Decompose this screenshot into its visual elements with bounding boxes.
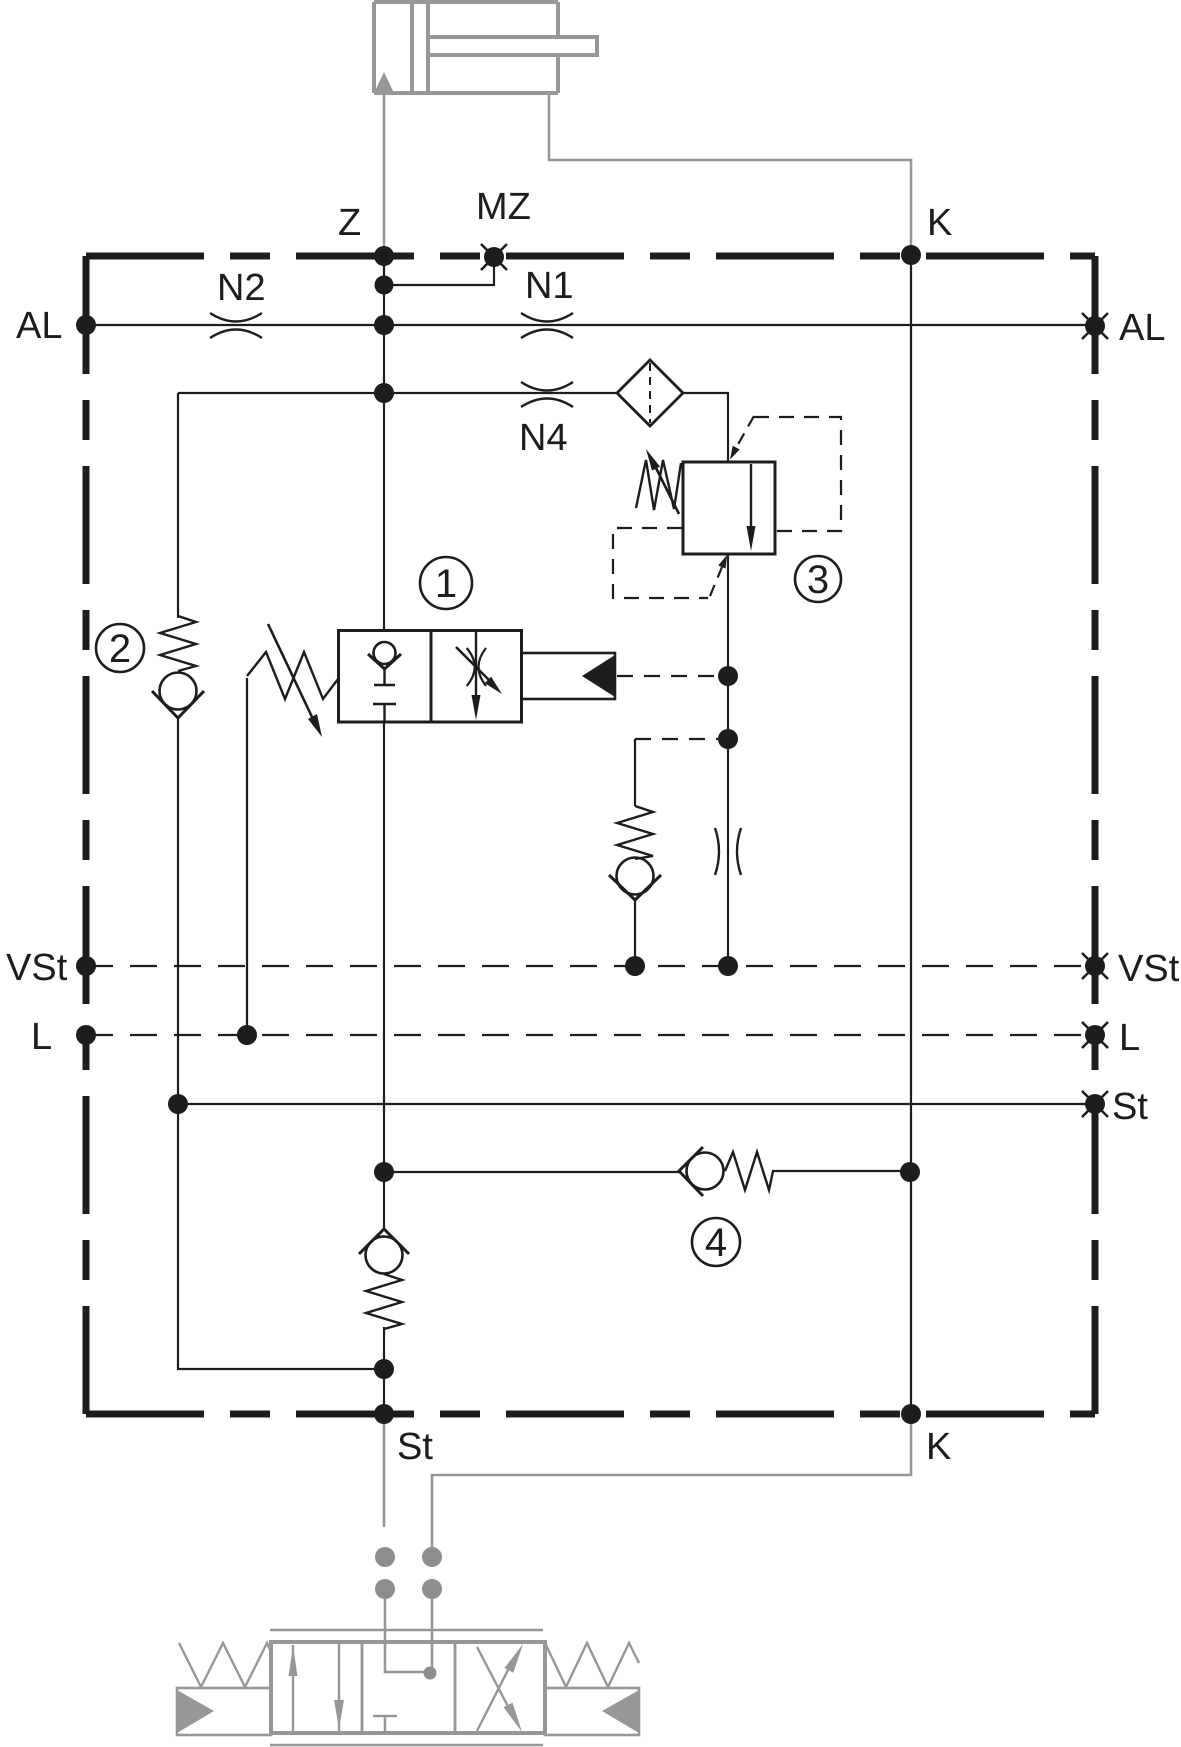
node AL right (1085, 316, 1105, 336)
wire N4 branch line (178, 392, 617, 394)
orifice N4 (521, 382, 573, 407)
node L spring junction (237, 1025, 257, 1045)
bottom check valve spring (366, 1274, 402, 1329)
check valve 2 spring (160, 616, 196, 671)
valve 1 adjust arrow (268, 624, 312, 717)
valve 1 solenoid (522, 653, 616, 699)
mid check valve spring (617, 806, 653, 859)
wire AL line (86, 324, 1095, 326)
node VSt right (1085, 956, 1105, 976)
node K bottom (901, 1404, 921, 1424)
valve 1 body (339, 631, 522, 723)
label AL left (16, 312, 61, 338)
wire L line (86, 1034, 1095, 1036)
node L right (1085, 1025, 1105, 1045)
node MZ (484, 247, 504, 267)
node bypass junction (374, 1162, 394, 1182)
wire K gray to valve (432, 1418, 911, 1667)
node VSt left (76, 956, 96, 976)
wire MZ tap (384, 260, 494, 285)
manifold boundary top (86, 253, 1095, 260)
wire bottom check to border (383, 1327, 385, 1414)
wire bypass check line (384, 1171, 680, 1173)
cylinder piston (412, 2, 428, 93)
valve 3 adjust arrow (653, 462, 679, 514)
GRAY SECTION TOP (374, 2, 597, 93)
filter (617, 360, 683, 426)
wire check pilot dashed (635, 738, 718, 740)
wire filter to valve3 (683, 393, 728, 462)
cylinder body (374, 2, 558, 93)
wire check branch (634, 739, 636, 966)
circle label 4 (692, 1218, 740, 1266)
valve 3 spring (636, 460, 681, 510)
manifold boundary left (83, 256, 90, 1414)
directional valve dividers (362, 1642, 455, 1733)
node AL junction (374, 315, 394, 335)
node AL left (76, 315, 96, 335)
valve 3 pilot dashed right (754, 417, 841, 531)
manifold boundary bottom (86, 1411, 1095, 1418)
label L left (34, 1023, 51, 1049)
coupling dots gray (375, 1547, 442, 1599)
node L left (76, 1025, 96, 1045)
label L right (1122, 1024, 1139, 1050)
node N4 junction (374, 383, 394, 403)
valve 1 spring (247, 652, 338, 699)
orifice N2 (210, 313, 262, 338)
directional valve body (271, 1642, 545, 1733)
cylinder port arrow (374, 72, 394, 93)
wire valve1 spring drain to L (246, 678, 248, 1035)
wire St gray to valve (384, 1418, 426, 1672)
valve 3 body (683, 462, 775, 554)
label Z (339, 209, 360, 235)
node St right (1085, 1094, 1105, 1114)
node check pilot junction (718, 729, 738, 749)
label VSt left (6, 954, 67, 981)
valve 3 pilot dashed left (613, 528, 708, 598)
check valve 2 ball (160, 673, 197, 710)
valve 1 throttle (475, 631, 477, 697)
bottom check valve seat (359, 1229, 409, 1254)
right spring (545, 1643, 639, 1687)
wire left branch down (178, 393, 384, 1369)
wire cylinder to K (gray) (549, 93, 911, 251)
valve left cell arrows (293, 1644, 339, 1732)
bottom check valve ball (366, 1237, 403, 1274)
label St right (1114, 1093, 1148, 1120)
node MZ tap junction (375, 276, 394, 295)
cylinder rod (428, 37, 597, 55)
circle label 3 (795, 556, 841, 602)
check valve 2 seat (152, 691, 204, 718)
label MZ (479, 193, 530, 219)
node St bottom (374, 1404, 394, 1424)
check valve 4 seat (679, 1147, 703, 1196)
valve middle cell lines (373, 1716, 397, 1731)
wire main Z line (383, 256, 385, 1231)
node VSt throttle junction (718, 956, 738, 976)
circle label 1 (420, 557, 472, 609)
label K top (930, 209, 952, 235)
wire St line (178, 1103, 1095, 1105)
label N2 (220, 274, 264, 301)
left spring (179, 1643, 271, 1687)
right solenoid (545, 1688, 639, 1735)
node VSt check junction (625, 956, 645, 976)
wire cylinder to Z (gray) (383, 90, 386, 252)
mid check valve seat (609, 875, 661, 900)
label AL right (1119, 314, 1164, 340)
directional valve plates (270, 1630, 543, 1745)
node Z (374, 246, 394, 266)
check valve 4 spring (725, 1152, 773, 1190)
node K top (901, 245, 921, 265)
mid check valve ball (617, 858, 654, 895)
label N1 (528, 272, 572, 298)
wire K vertical (910, 255, 912, 1414)
wire valve3 down (727, 554, 729, 966)
valve right cell cross arrows (477, 1647, 513, 1731)
left solenoid (177, 1688, 271, 1735)
valve 1 pilot poppet (374, 642, 396, 664)
manifold boundary right (1092, 256, 1099, 1414)
wire solenoid pilot dashed (617, 675, 728, 677)
wire check4 to K (772, 1170, 911, 1172)
label K bottom (929, 1433, 951, 1459)
wire VSt line (86, 965, 1095, 967)
label VSt right (1118, 955, 1179, 982)
valve 3 arrow (750, 464, 752, 527)
label N4 (522, 424, 566, 450)
label St bottom (399, 1433, 433, 1460)
check valve 4 ball (687, 1153, 724, 1190)
node bottom corner junction (374, 1359, 394, 1379)
node St start junction (168, 1094, 188, 1114)
circle label 2 (96, 624, 144, 672)
throttle below valve3 (715, 828, 741, 875)
node solenoid pilot junction (718, 666, 738, 686)
node check4 K junction (900, 1162, 920, 1182)
orifice N1 (521, 313, 573, 338)
